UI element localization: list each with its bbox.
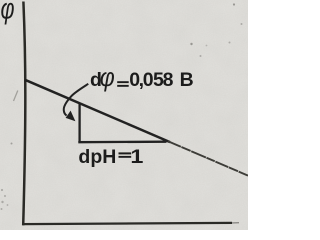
slope triangle horizontal side [78, 141, 166, 144]
curved arrow stem [64, 84, 89, 116]
x-axis faint tail [232, 222, 239, 224]
svg-text:0,058: 0,058 [129, 69, 173, 91]
svg-text:1: 1 [130, 146, 143, 168]
dpH equals sign [119, 152, 132, 157]
scan noise: faint scratch left edge [14, 91, 18, 102]
slope triangle vertical side [78, 103, 80, 142]
scan noise: specks [1, 3, 243, 210]
y-axis (potential phi axis) [23, 2, 25, 226]
main sloped line right part, fainter [168, 141, 248, 175]
paper background [0, 0, 248, 230]
annotation equals sign (after d-phi) [117, 81, 129, 87]
main sloped line left part (electrode potential vs pH) [25, 80, 170, 142]
svg-text:φ: φ [100, 62, 115, 92]
x-axis (pH axis) [22, 223, 232, 224]
dpH value 1 [130, 146, 143, 168]
svg-text:В: В [180, 69, 194, 91]
svg-text:dpH: dpH [78, 146, 116, 168]
curved arrow head [66, 111, 76, 122]
svg-text:φ: φ [1, 0, 15, 26]
